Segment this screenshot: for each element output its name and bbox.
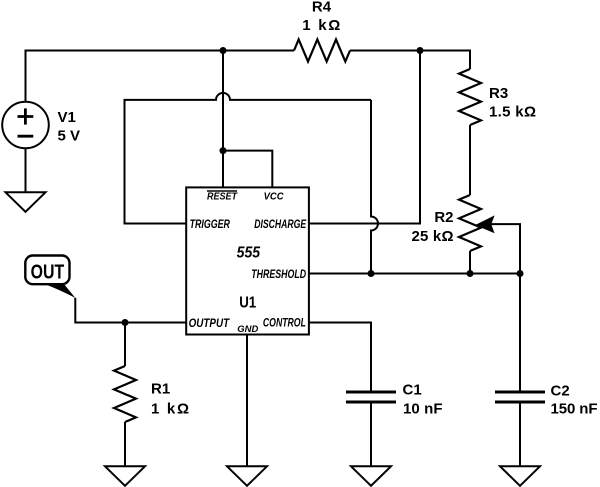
svg-text:1.5 kΩ: 1.5 kΩ xyxy=(489,103,536,120)
voltage source V1 xyxy=(2,102,80,149)
svg-text:C2: C2 xyxy=(551,382,570,399)
svg-text:RESET: RESET xyxy=(207,192,238,203)
wire: R2 bottom terminal to threshold line xyxy=(469,251,471,274)
wire: DISCHARGE pin right and up to top rail node xyxy=(309,51,420,224)
ground: below C2 xyxy=(500,466,540,486)
wire: R4 right along rail, corner down to R3 top xyxy=(350,51,470,70)
svg-text:10 nF: 10 nF xyxy=(403,400,443,417)
svg-text:VCC: VCC xyxy=(264,192,285,203)
svg-text:1 kΩ: 1 kΩ xyxy=(302,17,340,34)
junction dot: output / R1 xyxy=(122,319,129,326)
wire: V1 bottom lead xyxy=(25,148,27,192)
wire: OUTPUT pin left to OUT flag drop xyxy=(75,298,186,323)
svg-text:THRESHOLD: THRESHOLD xyxy=(251,267,306,281)
junction dot: R2 bottom / threshold xyxy=(467,270,474,277)
svg-text:150 nF: 150 nF xyxy=(551,401,598,418)
svg-text:V1: V1 xyxy=(58,109,76,126)
svg-text:25 kΩ: 25 kΩ xyxy=(412,228,454,245)
svg-text:5 V: 5 V xyxy=(58,128,81,145)
wire: C2 top lead from threshold node xyxy=(519,274,521,393)
svg-text:1 kΩ: 1 kΩ xyxy=(151,400,189,417)
wire: R1 top lead xyxy=(124,323,126,367)
junction dot: top rail at RESET riser xyxy=(220,47,227,54)
resistor R3 xyxy=(459,69,536,125)
wire: GND pin to ground xyxy=(246,335,248,467)
wire: CONTROL pin to C1 top xyxy=(309,323,371,393)
wire: V1 top lead up and along top rail to R4 left xyxy=(26,51,295,102)
capacitor C2 xyxy=(495,382,598,417)
wire: VCC link xyxy=(223,151,272,188)
wire: trigger tie down to threshold line (hop over discharge wire) xyxy=(371,100,378,274)
svg-text:C1: C1 xyxy=(403,381,422,398)
svg-text:R2: R2 xyxy=(434,209,453,226)
wire: R1 bottom to ground xyxy=(124,422,126,466)
svg-text:GND: GND xyxy=(237,324,258,334)
svg-text:TRIGGER: TRIGGER xyxy=(190,217,231,231)
wire: TRIGGER loop left and up, across (hop over RESET riser) xyxy=(125,93,372,224)
wire: R2 wiper to threshold node xyxy=(490,224,520,273)
capacitor C1 xyxy=(346,381,443,417)
wire: RESET riser from top rail to RESET pin xyxy=(222,51,224,188)
svg-text:OUTPUT: OUTPUT xyxy=(189,316,231,330)
net flag OUT xyxy=(25,256,75,298)
ground: below U1 GND xyxy=(227,466,267,486)
junction dot: wiper / threshold / C2 xyxy=(517,270,524,277)
svg-text:R3: R3 xyxy=(489,85,508,102)
resistor R1 xyxy=(114,366,189,422)
wire: R3 bottom to R2 top xyxy=(469,125,471,195)
resistor R4 xyxy=(294,0,350,61)
svg-text:R1: R1 xyxy=(151,380,170,397)
wire: THRESHOLD line xyxy=(309,273,520,275)
ground: below V1 xyxy=(6,192,46,212)
ground: below R1 xyxy=(105,466,145,486)
ground: below C1 xyxy=(351,466,391,486)
svg-text:R4: R4 xyxy=(312,0,332,15)
junction dot: trigger tie / threshold xyxy=(368,270,375,277)
svg-text:DISCHARGE: DISCHARGE xyxy=(254,217,307,231)
wire: C1 bottom to ground xyxy=(370,404,372,467)
junction dot: R4 / discharge riser node xyxy=(417,47,424,54)
wire: C2 bottom to ground xyxy=(519,404,521,467)
svg-text:OUT: OUT xyxy=(31,260,65,283)
junction dot: RESET/VCC split xyxy=(220,147,227,154)
svg-text:U1: U1 xyxy=(239,294,256,311)
potentiometer R2 xyxy=(412,195,494,251)
svg-text:CONTROL: CONTROL xyxy=(263,316,306,330)
svg-text:555: 555 xyxy=(237,245,261,262)
IC U1 555 xyxy=(186,187,309,334)
